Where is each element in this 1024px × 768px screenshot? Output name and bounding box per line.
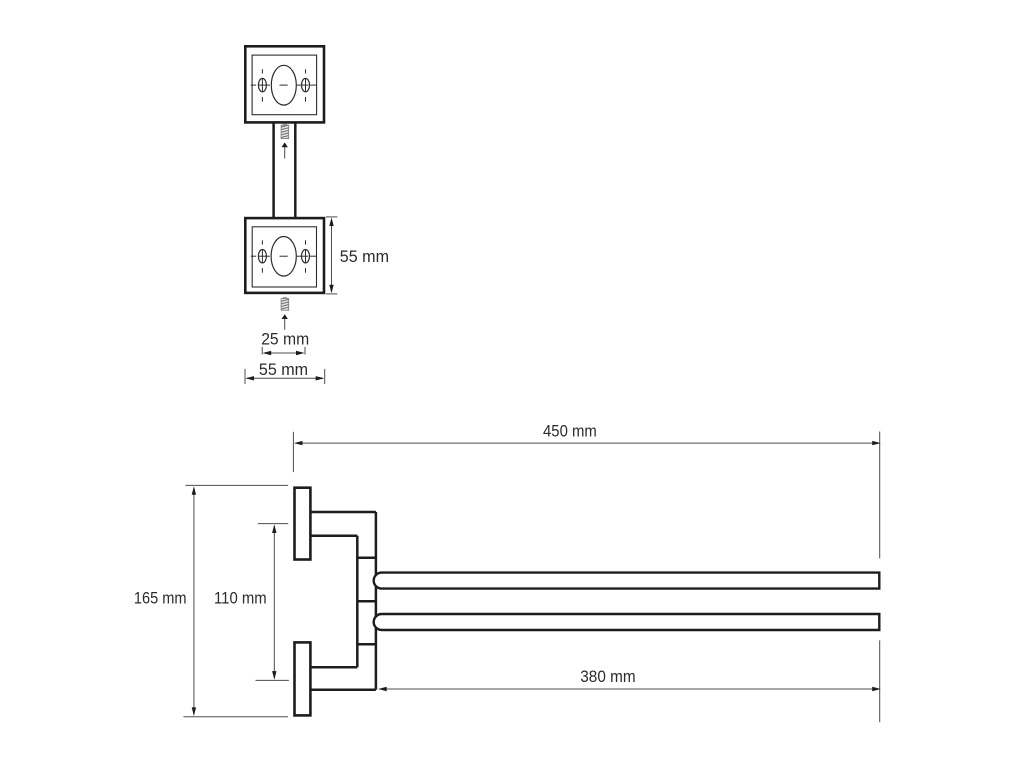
arrow A1 pointing up to screw S1 — [282, 142, 288, 158]
vertical centerline right hole — [305, 69, 307, 101]
small ellipse right — [302, 78, 310, 91]
dimension 55mm right side of bottom plate — [326, 217, 338, 294]
top wall plate (front) outer square — [245, 46, 324, 122]
small ellipse right — [302, 250, 310, 263]
svg-text:165 mm: 165 mm — [134, 588, 187, 607]
arrow A2 pointing up to screw S2 — [282, 314, 288, 330]
svg-text:450 mm: 450 mm — [543, 421, 597, 440]
bottom arm (L bracket) — [311, 667, 376, 690]
screw S2 under bottom plate — [281, 297, 289, 310]
small ellipse left — [258, 250, 266, 263]
screw S1 under top plate — [281, 124, 289, 139]
small ellipse left — [258, 78, 266, 91]
inner square — [252, 55, 317, 115]
horizontal centerline — [251, 84, 316, 86]
svg-text:55 mm: 55 mm — [259, 360, 308, 379]
svg-text:110 mm: 110 mm — [214, 588, 267, 607]
top arm (L bracket) — [311, 512, 376, 536]
connecting bar between plates — [274, 123, 296, 217]
big ellipse — [271, 236, 296, 276]
bottom wall plate (side) — [295, 642, 311, 715]
horizontal centerline — [251, 255, 316, 257]
top wall plate (side) — [295, 488, 311, 560]
lower towel bar — [374, 614, 880, 630]
inner square — [252, 227, 316, 287]
svg-text:55 mm: 55 mm — [340, 247, 389, 266]
svg-text:25 mm: 25 mm — [261, 329, 309, 348]
upper towel bar — [374, 573, 880, 589]
swivel post — [357, 512, 376, 690]
vertical centerline right hole — [305, 240, 307, 272]
svg-text:380 mm: 380 mm — [580, 667, 635, 686]
vertical centerline left hole — [261, 240, 263, 272]
bottom wall plate (front) outer square — [245, 218, 324, 293]
vertical centerline left hole — [261, 69, 263, 101]
big ellipse — [271, 65, 296, 105]
